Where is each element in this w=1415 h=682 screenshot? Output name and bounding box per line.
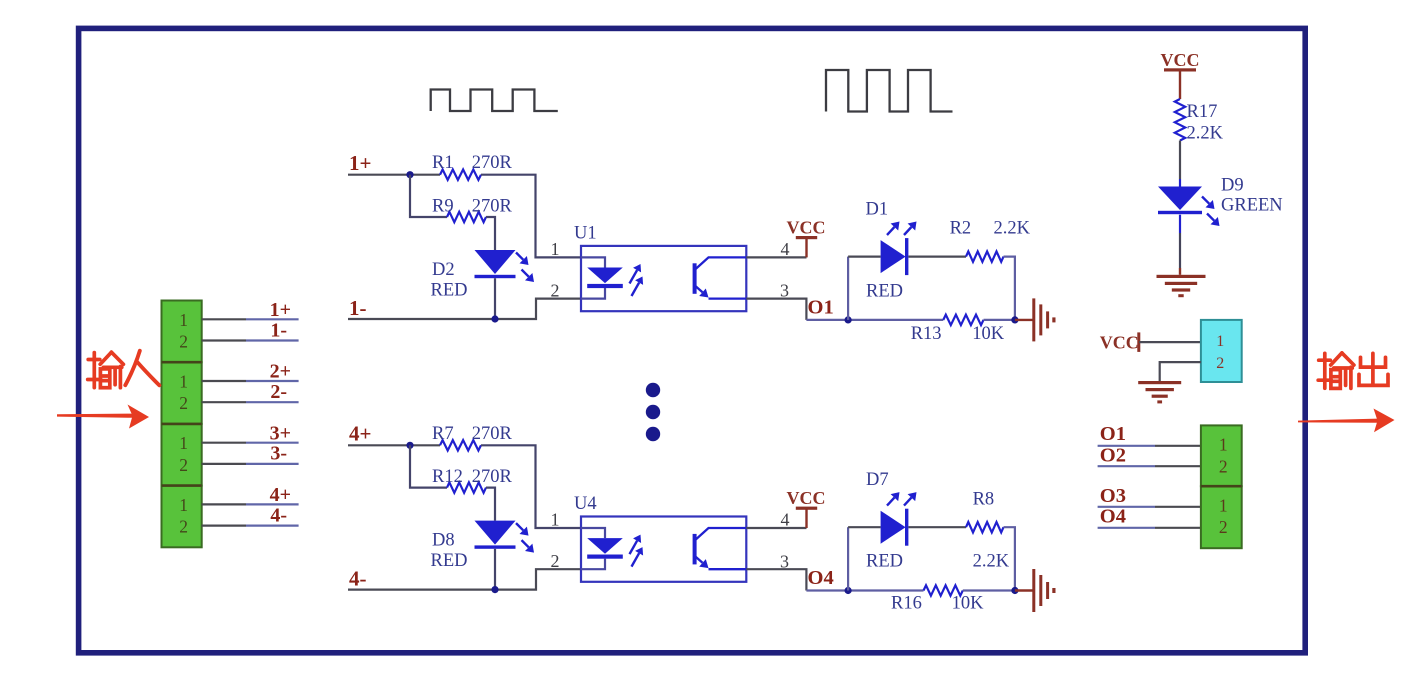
wire D7 to R8 xyxy=(909,526,967,528)
wire D9 cathode to ground xyxy=(1179,215,1181,233)
power VCC of U1 xyxy=(805,238,807,258)
svg-text:2: 2 xyxy=(1219,517,1228,537)
svg-text:RED: RED xyxy=(431,551,468,571)
wire to D1 anode xyxy=(848,256,881,258)
svg-text:2: 2 xyxy=(179,393,188,413)
resistor R2 2.2K xyxy=(966,251,1004,261)
svg-text:2.2K: 2.2K xyxy=(994,219,1031,239)
optocoupler U4 phototransistor xyxy=(693,534,697,565)
svg-text:O1: O1 xyxy=(808,297,834,319)
svg-text:VCC: VCC xyxy=(787,218,826,238)
svg-text:2: 2 xyxy=(551,280,560,300)
LED D9 xyxy=(1158,187,1202,211)
wire pin4 of U1 to VCC xyxy=(746,256,806,258)
power VCC of U4 xyxy=(805,508,807,528)
svg-text:GREEN: GREEN xyxy=(1221,196,1283,216)
svg-text:1: 1 xyxy=(179,433,188,453)
svg-text:4+: 4+ xyxy=(270,484,291,506)
svg-text:2-: 2- xyxy=(270,381,287,403)
svg-text:R17: R17 xyxy=(1187,102,1218,122)
svg-text:2+: 2+ xyxy=(270,361,291,383)
svg-text:RED: RED xyxy=(866,551,903,571)
continuation dots xyxy=(646,383,660,441)
svg-text:O3: O3 xyxy=(1100,485,1126,507)
svg-text:270R: 270R xyxy=(472,467,513,487)
LED D2 xyxy=(475,250,516,274)
connector divider J1/J2 xyxy=(162,361,202,364)
resistor R13 10K xyxy=(943,315,983,325)
svg-text:1: 1 xyxy=(551,510,560,530)
svg-text:VCC: VCC xyxy=(1100,333,1139,353)
svg-text:3-: 3- xyxy=(270,443,287,465)
node junction ground side xyxy=(1011,587,1018,594)
svg-text:O4: O4 xyxy=(808,567,834,589)
wire J3 pin2 xyxy=(202,463,246,465)
emission arrows of D7 xyxy=(887,498,894,506)
svg-text:4-: 4- xyxy=(270,504,287,526)
wire R12 to D8 xyxy=(486,488,495,521)
resistor R1 270R xyxy=(440,170,481,180)
svg-text:1: 1 xyxy=(179,372,188,392)
svg-text:270R: 270R xyxy=(472,424,513,444)
wire R9 to D2 xyxy=(486,217,495,250)
wire J4 pin2 xyxy=(202,524,246,526)
svg-text:2: 2 xyxy=(1219,456,1228,476)
optocoupler U1 body xyxy=(581,246,746,311)
wire to D7 anode xyxy=(848,526,881,528)
svg-text:2: 2 xyxy=(551,551,560,571)
svg-text:D2: D2 xyxy=(432,260,455,280)
ground of D9 xyxy=(1157,275,1206,297)
svg-text:1: 1 xyxy=(179,495,188,515)
wire R2 down to ground node xyxy=(1004,257,1015,320)
emission arrows of D8 xyxy=(516,523,523,530)
svg-text:R13: R13 xyxy=(911,324,942,344)
resistor R8 2.2K xyxy=(966,522,1004,532)
svg-text:R7: R7 xyxy=(432,424,454,444)
svg-text:RED: RED xyxy=(431,281,468,301)
svg-text:1: 1 xyxy=(1216,333,1224,350)
output arrow xyxy=(1298,419,1378,423)
wire 1- to pin2 xyxy=(348,299,581,319)
svg-text:2: 2 xyxy=(179,517,188,537)
svg-text:2: 2 xyxy=(179,455,188,475)
svg-text:1-: 1- xyxy=(270,319,287,341)
connector J6 output block xyxy=(1201,425,1242,486)
svg-text:R2: R2 xyxy=(950,219,972,239)
svg-text:10K: 10K xyxy=(952,594,985,614)
wire O1 to J6 pin1 xyxy=(1098,445,1155,447)
svg-text:R12: R12 xyxy=(432,467,463,487)
input square wave xyxy=(431,90,558,112)
connector J3 input block xyxy=(162,424,202,486)
wire D8 cathode xyxy=(494,549,496,590)
wire J2 pin1 xyxy=(202,380,246,382)
optocoupler U4 internal LED xyxy=(581,528,605,538)
wire D2 cathode xyxy=(494,278,496,319)
svg-text:1: 1 xyxy=(551,239,560,259)
node junction 1+ xyxy=(406,171,413,178)
resistor R17 2.2K xyxy=(1175,99,1185,141)
node junction ground side xyxy=(1011,316,1018,323)
svg-text:D8: D8 xyxy=(432,531,455,551)
wire J4 pin1 xyxy=(202,503,246,505)
ground symbol of O4 rail xyxy=(1032,569,1055,612)
svg-text:2.2K: 2.2K xyxy=(1187,124,1224,144)
node junction 4+ xyxy=(406,442,413,449)
svg-text:10K: 10K xyxy=(972,324,1005,344)
svg-text:R16: R16 xyxy=(891,594,922,614)
resistor R9 270R xyxy=(447,212,486,222)
input arrow xyxy=(57,414,133,418)
border frame xyxy=(79,28,1306,652)
wire D1 to R2 xyxy=(909,256,967,258)
chinese label input xyxy=(88,352,124,388)
riser wire to D1 branch xyxy=(847,257,849,320)
svg-text:O2: O2 xyxy=(1100,445,1126,467)
wire R8 down to ground node xyxy=(1004,527,1015,590)
resistor R7 270R xyxy=(440,440,481,450)
svg-text:1+: 1+ xyxy=(349,151,371,175)
resistor R16 10K xyxy=(924,585,963,595)
svg-text:1: 1 xyxy=(1219,435,1228,455)
wire J1 pin2 xyxy=(202,339,246,341)
connector divider J6/J7 xyxy=(1201,485,1242,488)
wire R17 to D9 xyxy=(1179,141,1181,180)
wire branch to R9 xyxy=(410,175,447,217)
svg-text:U1: U1 xyxy=(574,224,597,244)
optocoupler U1 emission arrows xyxy=(630,270,638,283)
wire output bottom rail xyxy=(806,319,943,321)
wire J2 pin2 xyxy=(202,401,246,403)
optocoupler U4 emission arrows xyxy=(630,541,638,554)
emission arrows of D1 xyxy=(887,227,894,235)
svg-text:270R: 270R xyxy=(472,196,513,216)
svg-text:RED: RED xyxy=(866,282,903,302)
connector divider J2/J3 xyxy=(162,423,202,426)
wire branch to R12 xyxy=(410,445,447,487)
node junction O1 rail xyxy=(845,316,852,323)
connector J5 power block xyxy=(1201,320,1242,382)
ground of J5 xyxy=(1138,381,1181,403)
wire VCC to J5 pin1 xyxy=(1139,341,1201,343)
svg-text:VCC: VCC xyxy=(787,488,826,508)
node junction 4- xyxy=(491,586,498,593)
wire 4+ input xyxy=(348,444,440,446)
svg-text:4-: 4- xyxy=(349,567,367,591)
node junction O4 rail xyxy=(845,587,852,594)
svg-text:1: 1 xyxy=(1219,496,1228,516)
wire J3 pin1 xyxy=(202,442,246,444)
LED D1 xyxy=(881,240,906,273)
svg-text:VCC: VCC xyxy=(1161,50,1200,70)
wire R16 to ground node xyxy=(963,589,1015,591)
wire 4- to pin2 xyxy=(348,569,581,589)
svg-text:4: 4 xyxy=(781,510,790,530)
wire pin3 of U4 to O4 xyxy=(746,569,806,590)
svg-text:D7: D7 xyxy=(866,470,889,490)
wire R13 to ground node xyxy=(984,319,1015,321)
wire R7 to pin1 xyxy=(481,445,581,528)
svg-text:U4: U4 xyxy=(574,494,597,514)
LED D7 xyxy=(881,511,906,544)
svg-text:1+: 1+ xyxy=(270,299,291,321)
svg-text:R9: R9 xyxy=(432,196,454,216)
wire O2 to J6 pin2 xyxy=(1098,465,1155,467)
output square wave xyxy=(826,70,953,112)
wire 1+ input xyxy=(348,174,440,176)
riser wire to D7 branch xyxy=(847,527,849,590)
wire pin3 of U1 to O1 xyxy=(746,299,806,320)
svg-text:3+: 3+ xyxy=(270,422,291,444)
emission arrows of D2 xyxy=(516,253,523,260)
svg-text:R8: R8 xyxy=(973,490,995,510)
wire to ground xyxy=(1015,319,1033,321)
connector J4 input block xyxy=(162,486,202,548)
connector J7 output block xyxy=(1201,486,1242,548)
chinese label output xyxy=(1318,353,1354,389)
emission arrows of D9 xyxy=(1202,197,1209,204)
svg-text:270R: 270R xyxy=(472,153,513,173)
wire J5 pin2 to ground xyxy=(1160,362,1201,381)
svg-text:O4: O4 xyxy=(1100,506,1126,528)
resistor R12 270R xyxy=(447,482,486,492)
svg-text:R1: R1 xyxy=(432,153,454,173)
ground symbol of O1 rail xyxy=(1032,298,1055,341)
LED D8 xyxy=(475,521,516,545)
wire R1 to pin1 xyxy=(481,175,581,258)
svg-text:1: 1 xyxy=(179,310,188,330)
svg-text:O1: O1 xyxy=(1100,423,1126,445)
optocoupler U1 phototransistor xyxy=(693,263,697,294)
svg-text:2: 2 xyxy=(179,332,188,352)
wire output bottom rail xyxy=(806,589,923,591)
optocoupler U4 body xyxy=(581,517,746,582)
connector divider J3/J4 xyxy=(162,484,202,487)
svg-text:4: 4 xyxy=(781,239,790,259)
wire pin4 of U4 to VCC xyxy=(746,527,806,529)
connector J2 input block xyxy=(162,362,202,424)
wire O3 to J7 pin1 xyxy=(1098,506,1155,508)
wire J1 pin1 xyxy=(202,318,246,320)
node junction 1- xyxy=(491,315,498,322)
svg-text:1-: 1- xyxy=(349,296,367,320)
optocoupler U1 internal LED xyxy=(581,257,605,267)
svg-text:D1: D1 xyxy=(866,200,889,220)
svg-text:2.2K: 2.2K xyxy=(973,551,1010,571)
connector J1 input block xyxy=(162,301,202,363)
svg-text:2: 2 xyxy=(1216,355,1224,372)
wire to ground xyxy=(1015,589,1033,591)
svg-text:4+: 4+ xyxy=(349,422,371,446)
wire O4 to J7 pin2 xyxy=(1098,527,1155,529)
svg-text:D9: D9 xyxy=(1221,176,1244,196)
